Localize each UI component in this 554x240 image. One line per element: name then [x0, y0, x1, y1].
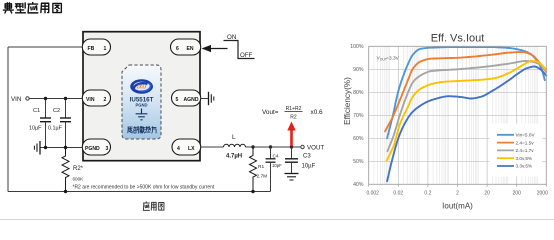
svg-text:C3: C3: [303, 154, 311, 160]
svg-text:2: 2: [104, 97, 107, 103]
pin 6 EN: [171, 39, 201, 55]
svg-text:1: 1: [104, 46, 107, 52]
capacitor C4 10pF: [266, 147, 283, 192]
chart Eff. Vs.Iout: [369, 46, 547, 184]
svg-text:90%: 90%: [353, 67, 364, 73]
svg-text:R1: R1: [258, 164, 264, 170]
capacitor C3 10uF: [285, 147, 316, 170]
thermal pad ground symbol: [136, 109, 148, 120]
svg-text:2.4=1.7v: 2.4=1.7v: [516, 148, 535, 153]
resistor R2* 600K: [62, 148, 84, 192]
svg-text:80%: 80%: [353, 90, 364, 96]
svg-text:0.2: 0.2: [424, 191, 431, 197]
chart curve series 4 (yellow): [387, 61, 547, 161]
pin 5 AGND: [172, 90, 201, 106]
svg-text:2.4=1.5v: 2.4=1.5v: [516, 140, 535, 145]
chart y-axis labels: [350, 44, 364, 188]
thermal pad label 底部散热片: [128, 126, 156, 133]
svg-text:4.7µH: 4.7µH: [226, 154, 242, 160]
junction dot 9: [290, 145, 293, 148]
svg-text:Efficiency(%): Efficiency(%): [343, 77, 352, 125]
svg-text:C1: C1: [33, 108, 40, 114]
ON/OFF waveform: [224, 34, 255, 59]
wire inductor to VOUT: [246, 146, 301, 148]
annotation red arrow to VOUT node: [287, 122, 295, 147]
wire VIN to pin 2: [29, 98, 83, 100]
chart curve Vin series 1 (light blue): [387, 47, 545, 138]
svg-text:VIN: VIN: [11, 96, 21, 103]
svg-text:OFF: OFF: [240, 52, 253, 59]
resistor R1 2.7M: [250, 147, 268, 192]
svg-text:EN: EN: [187, 46, 194, 52]
svg-text:AGND: AGND: [184, 97, 199, 103]
svg-text:3.0v.5%: 3.0v.5%: [516, 156, 533, 161]
svg-text:Vout=: Vout=: [262, 109, 279, 116]
svg-text:L: L: [232, 134, 236, 141]
svg-text:2000: 2000: [537, 191, 548, 197]
wire left vertical rail: [7, 47, 9, 192]
junction dot 3: [44, 146, 47, 149]
inductor L 4.7uH: [224, 134, 246, 160]
svg-text:3.3v.5%: 3.3v.5%: [516, 164, 533, 169]
note R2 recommendation: [73, 185, 215, 191]
chart title: [431, 33, 485, 45]
svg-text:20: 20: [484, 191, 490, 197]
svg-text:PGND: PGND: [85, 146, 100, 152]
svg-text:200: 200: [513, 191, 522, 197]
annotation Vout formula: [262, 106, 323, 121]
wire LX to inductor: [200, 146, 224, 148]
svg-text:C4: C4: [273, 154, 279, 159]
U1 logo: [130, 79, 153, 94]
capacitor C1 10uF: [29, 99, 51, 148]
svg-text:FB: FB: [88, 46, 95, 52]
junction dot 5: [64, 190, 67, 193]
pin 4 LX: [172, 139, 201, 155]
junction dot 7: [251, 190, 254, 193]
svg-text:100%: 100%: [350, 44, 364, 50]
svg-text:70%: 70%: [353, 113, 364, 119]
chart curve series 3 (gray): [388, 61, 547, 151]
svg-text:2: 2: [456, 191, 459, 197]
junction dot 8: [269, 145, 272, 148]
chart curve series 5 (dark blue): [387, 67, 546, 182]
terminal VOUT: [301, 145, 325, 152]
junction dot 6: [251, 145, 254, 148]
caption 应用图: [143, 202, 164, 211]
svg-text:VOUT: VOUT: [307, 145, 324, 152]
svg-text:Iout(mA): Iout(mA): [442, 202, 473, 211]
svg-text:10µF: 10µF: [302, 164, 316, 170]
svg-text:0.02: 0.02: [393, 191, 403, 197]
capacitor C2 0.1uF: [48, 99, 71, 148]
pin 1 FB: [82, 39, 110, 55]
junction dot 1: [44, 97, 47, 100]
svg-text:Vin=5.0V: Vin=5.0V: [516, 133, 536, 138]
junction dot 2: [64, 97, 67, 100]
svg-text:Eff. Vs.Iout: Eff. Vs.Iout: [431, 33, 485, 45]
svg-text:ON: ON: [227, 34, 236, 41]
svg-text:5: 5: [176, 97, 179, 103]
svg-text:3: 3: [106, 146, 109, 152]
wire FB to left rail: [8, 46, 83, 48]
svg-text:R2*: R2*: [73, 166, 84, 172]
svg-text:0.002: 0.002: [366, 191, 379, 197]
pin 3 PGND: [82, 139, 110, 155]
ground (input side): [34, 141, 45, 155]
svg-text:C2: C2: [53, 108, 60, 114]
svg-text:R1+R2: R1+R2: [286, 106, 302, 112]
chart curve series 2 (orange): [385, 52, 546, 131]
chart y-axis title Efficiency(%): [343, 77, 352, 125]
ground AGND: [200, 92, 214, 105]
chart x-axis title Iout(mA): [442, 202, 473, 211]
ground (output side): [285, 162, 299, 180]
svg-text:10pF: 10pF: [272, 163, 282, 168]
svg-text:4: 4: [177, 146, 180, 152]
chart x-axis labels: [366, 184, 548, 196]
svg-text:LX: LX: [188, 146, 195, 152]
U1 PGND label: [135, 102, 147, 107]
svg-text:60%: 60%: [353, 136, 364, 142]
svg-text:2.7M: 2.7M: [257, 174, 268, 180]
chart legend: [490, 124, 543, 177]
svg-text:IXU: IXU: [137, 85, 147, 91]
svg-text:VIN: VIN: [86, 97, 95, 103]
svg-text:PGND: PGND: [135, 102, 147, 107]
wire bottom rail: [8, 191, 271, 193]
svg-text:0.1µF: 0.1µF: [48, 126, 63, 132]
chart plot border: [369, 46, 547, 184]
svg-text:6: 6: [176, 46, 179, 52]
chart annotation VOUT=3.3V: [377, 56, 400, 62]
wire ground line to PGND pin 3: [46, 147, 84, 149]
svg-text:*R2 are recommended to be >500: *R2 are recommended to be >500K ohm for …: [73, 185, 215, 191]
svg-text:=3.3V: =3.3V: [386, 56, 399, 62]
page rule line: [0, 219, 554, 221]
svg-text:40%: 40%: [353, 182, 364, 188]
U1 thermal pad (dashed): [122, 65, 161, 139]
page title 典型应用图: [3, 3, 61, 13]
svg-text:10µF: 10µF: [29, 126, 42, 132]
IC U1 IU5516T body: [83, 32, 200, 161]
svg-text:R2: R2: [290, 115, 297, 121]
pin 2 VIN: [82, 90, 110, 106]
svg-text:50%: 50%: [353, 159, 364, 165]
U1 part number label IU5516T: [130, 97, 154, 104]
junction dot 4: [64, 146, 67, 149]
terminal VIN: [11, 96, 29, 103]
svg-text:x0.6: x0.6: [311, 109, 324, 116]
svg-text:600K: 600K: [73, 177, 85, 182]
EN drive arrow: [202, 45, 228, 52]
